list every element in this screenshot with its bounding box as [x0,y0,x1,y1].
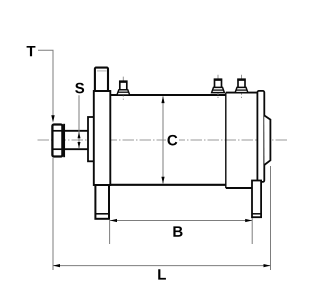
pulley right flange face [63,124,65,157]
dimension B line [110,220,252,222]
L extension line right [270,166,272,270]
rear bracket bottom line [226,187,253,189]
white mask behind C label [166,133,179,146]
dimension S leader [78,95,80,148]
body bottom line [110,184,226,186]
mounting ear (top) [95,68,108,91]
rear mounting foot [252,181,261,218]
dimension L label [158,269,166,279]
rear bracket top line [226,92,258,94]
bracket ledge line [94,90,111,92]
ear inner highlight line [97,70,107,72]
body top line [110,94,226,96]
dimension T label [27,46,36,56]
dimension T arrowhead [51,115,54,122]
dimension L arrowheads [53,264,60,267]
dimension B extension lines [109,220,111,245]
rear foot inner line [252,213,261,215]
dimension C line [162,96,164,183]
centerline (horizontal axis) [38,139,289,141]
slip-ring end cover strip [257,91,264,182]
dimension S arrowheads [78,132,81,138]
front mounting foot [95,185,109,219]
dimension L line [53,265,271,267]
dimension B arrowheads [110,219,117,222]
terminal stud (rear 1) [212,75,225,98]
foot inner line [95,213,109,215]
shaft [64,130,89,132]
terminal stud (rear 2) [235,75,248,98]
dimension T leader [38,50,53,115]
joint line body/rear bracket [225,93,227,188]
pulley [52,125,62,157]
rear cover protrusion [264,115,270,164]
pulley groove lines [54,130,62,132]
L extension line left (through pulley) [52,158,54,270]
dimension B label [173,226,182,236]
dimension S label [75,83,84,94]
drive-end bracket body [94,91,111,185]
terminal stud B+ (front) [117,77,130,100]
bearing hub [88,117,94,161]
dimension C arrowheads [161,96,164,103]
dimension C label [168,135,178,146]
